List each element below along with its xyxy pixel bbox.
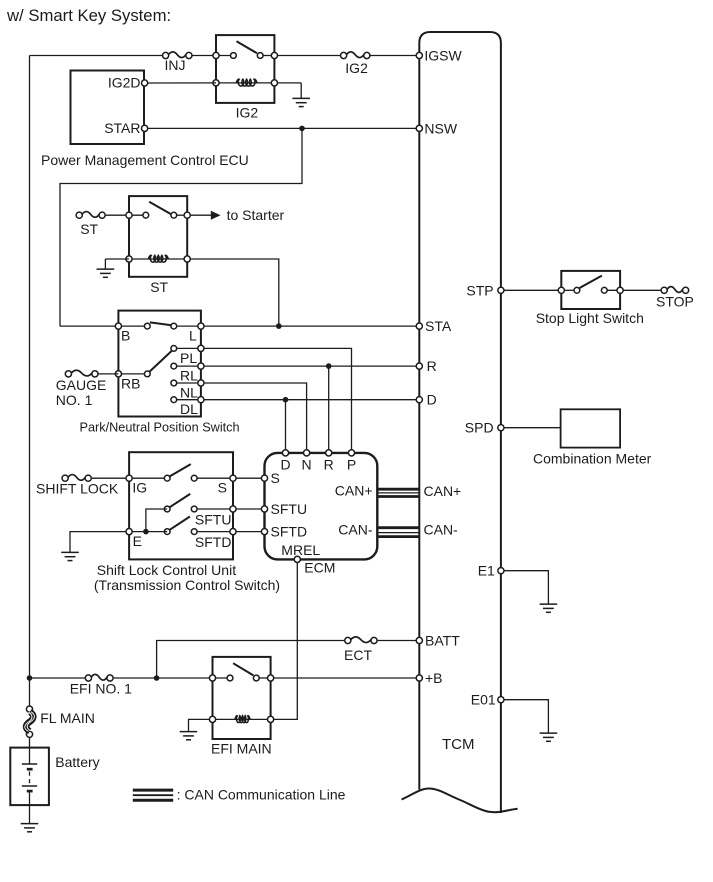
- wire E1 to ground: [504, 571, 549, 604]
- label P (ECM pin): [347, 457, 356, 473]
- label E: [133, 533, 142, 549]
- svg-text:INJ: INJ: [165, 57, 186, 73]
- battery cell plates: [22, 764, 37, 791]
- svg-text:SFTD: SFTD: [195, 534, 232, 550]
- wire relay EFI MAIN coil to ground: [189, 719, 210, 731]
- wire E to ground: [70, 532, 126, 553]
- ground at relay EFI MAIN: [180, 732, 198, 740]
- Shift Lock Control Unit box: [129, 452, 233, 559]
- label S (shift lock): [218, 480, 227, 496]
- wire BATT line: [157, 641, 345, 679]
- svg-text:RB: RB: [121, 375, 140, 391]
- PNP inner contact B: [144, 323, 150, 329]
- svg-text:STP: STP: [466, 282, 493, 298]
- terminal IG2D: [142, 80, 148, 86]
- svg-text:SHIFT LOCK: SHIFT LOCK: [36, 480, 119, 496]
- svg-text:Combination Meter: Combination Meter: [533, 450, 652, 466]
- label SFTU (ECM pin): [271, 501, 308, 517]
- label E01: [471, 692, 496, 708]
- relay IG2 label: [236, 105, 259, 121]
- shift lock switch 1 row wires: [129, 477, 233, 479]
- wire fuse SHIFT LOCK to IG: [91, 477, 129, 479]
- PNP inner contact RL: [171, 363, 177, 369]
- ECM terminal SFTD: [261, 529, 267, 535]
- Stop Light Switch box: [561, 271, 620, 309]
- label NSW: [424, 120, 457, 136]
- wire PL to ECM P: [204, 348, 352, 450]
- svg-text:SFTD: SFTD: [271, 524, 308, 540]
- wire fuse ECT to terminal BATT: [377, 640, 420, 642]
- wire relay EFI MAIN to terminal +B: [274, 677, 420, 679]
- Stop Light Switch blade: [580, 276, 602, 288]
- wire SFTU row to ECM: [236, 508, 265, 510]
- svg-text:IG: IG: [132, 480, 147, 496]
- svg-text:STOP: STOP: [656, 294, 694, 310]
- ground at E01: [540, 733, 558, 741]
- svg-text:Park/Neutral Position Switch: Park/Neutral Position Switch: [80, 420, 240, 434]
- relay IG2 switch contacts: [231, 53, 264, 59]
- relay IG2 switch blade: [237, 41, 258, 53]
- ECM terminal MREL: [294, 556, 300, 562]
- label R: [427, 358, 437, 374]
- wire relay ST coil to STA line: [190, 259, 279, 326]
- ECM box: [265, 453, 378, 560]
- wire relay ST output to starter arrow: [190, 214, 211, 216]
- node junction left bus / +B: [27, 675, 33, 681]
- wire NSW junction down and left to ST branch: [60, 128, 302, 326]
- PNP B-L row wires: [118, 325, 200, 327]
- relay EFI MAIN box: [213, 657, 271, 739]
- shift lock switch 1 blade: [170, 464, 191, 476]
- svg-text:CAN+: CAN+: [424, 483, 462, 499]
- Park/Neutral Position Switch caption: [80, 420, 240, 434]
- terminal E1: [498, 568, 504, 574]
- wire PL contact: [177, 347, 201, 349]
- Transmission Control Switch caption: [94, 577, 280, 593]
- svg-text:NL: NL: [180, 384, 198, 400]
- ground at relay ST: [97, 259, 115, 277]
- svg-text:ECM: ECM: [304, 560, 335, 576]
- label NL: [180, 384, 198, 400]
- terminal IG: [126, 475, 132, 481]
- terminal E01: [498, 697, 504, 703]
- terminal SFTD (shift lock): [230, 529, 236, 535]
- relay IG2 coil: [236, 79, 257, 86]
- node junction at E: [143, 529, 149, 535]
- node junction STAR/NSW branch: [299, 126, 305, 132]
- svg-text:CAN+: CAN+: [335, 483, 373, 499]
- fuse STOP: [661, 287, 689, 294]
- terminal IGSW: [416, 52, 422, 58]
- svg-text:N: N: [302, 457, 312, 473]
- ECM terminal SFTU: [261, 506, 267, 512]
- relay EFI MAIN coil terminals: [209, 716, 273, 722]
- relay ST coil: [148, 255, 168, 262]
- label D (ECM pin): [280, 457, 290, 473]
- label N (ECM pin): [302, 457, 312, 473]
- wire STA line: [204, 325, 419, 327]
- Shift Lock Control Unit caption: [97, 562, 236, 578]
- shift lock switch 2 contacts: [164, 506, 197, 512]
- wire RL contact: [177, 365, 201, 367]
- ground at relay IG2: [292, 83, 310, 107]
- svg-text:DL: DL: [180, 401, 198, 417]
- label CAN+ (ECM pin): [335, 483, 373, 499]
- label SHIFT LOCK: [36, 480, 119, 496]
- wire E row: [129, 531, 167, 533]
- shift lock switch 3 blade: [170, 517, 190, 530]
- ground at battery: [21, 824, 39, 832]
- terminal B: [115, 323, 121, 329]
- svg-text:CAN-: CAN-: [424, 521, 459, 537]
- wire S row to ECM: [236, 477, 265, 479]
- label fuse ST: [80, 221, 98, 237]
- svg-text:IG2D: IG2D: [108, 74, 141, 90]
- wire left bus to FL MAIN: [29, 678, 31, 706]
- terminal NSW: [416, 125, 422, 131]
- label B: [121, 328, 130, 344]
- terminal STA: [416, 323, 422, 329]
- label SFTU (shift lock): [195, 511, 232, 527]
- terminal +B: [416, 675, 422, 681]
- left bus wire (vertical): [29, 56, 31, 679]
- label MREL: [281, 542, 320, 558]
- label D: [427, 392, 437, 408]
- label CAN- (ECM pin): [338, 521, 373, 537]
- terminal SFTU (shift lock): [230, 506, 236, 512]
- svg-text:GAUGE: GAUGE: [56, 377, 107, 393]
- label to Starter: [227, 207, 285, 223]
- svg-text:STA: STA: [425, 318, 452, 334]
- svg-text:to Starter: to Starter: [227, 207, 285, 223]
- svg-text:+B: +B: [425, 670, 443, 686]
- wire SFTD row to ECM: [236, 531, 265, 533]
- label R (ECM pin): [324, 457, 334, 473]
- wire DL to terminal D: [204, 399, 419, 401]
- terminal BATT: [416, 637, 422, 643]
- terminal E: [126, 529, 132, 535]
- ECM caption: [304, 560, 335, 576]
- svg-text:S: S: [218, 480, 227, 496]
- fuse IG2: [341, 52, 370, 59]
- wire D junction down to ECM D: [285, 400, 287, 450]
- label STP: [466, 282, 493, 298]
- label GAUGE: [56, 377, 107, 393]
- svg-text:EFI NO. 1: EFI NO. 1: [70, 681, 132, 697]
- terminal L: [198, 323, 204, 329]
- svg-text:RL: RL: [180, 368, 198, 384]
- relay IG2 coil terminals: [213, 80, 278, 86]
- label IG: [132, 480, 147, 496]
- PNP inner contact DL: [171, 397, 177, 403]
- node junction on D line: [283, 397, 289, 403]
- label EFI NO. 1: [70, 681, 132, 697]
- svg-text:(Transmission Control Switch): (Transmission Control Switch): [94, 577, 280, 593]
- terminal RB: [115, 371, 121, 377]
- wire fuse GAUGE to terminal RB: [98, 373, 119, 375]
- battery box: [10, 748, 49, 806]
- terminal PL: [198, 345, 204, 351]
- shift lock switch 3 row wire: [194, 531, 233, 533]
- PNP inner contact L: [171, 323, 177, 329]
- wire battery to ground: [29, 792, 31, 823]
- svg-text:: CAN Communication Line: : CAN Communication Line: [177, 786, 346, 802]
- svg-text:R: R: [427, 358, 437, 374]
- svg-text:B: B: [121, 328, 130, 344]
- svg-text:IGSW: IGSW: [424, 48, 462, 64]
- label SFTD (ECM pin): [271, 524, 308, 540]
- shift lock switch 1 contacts: [164, 475, 197, 481]
- wire MREL to EFI MAIN relay coil: [274, 562, 298, 719]
- CAN legend caption: [177, 786, 346, 802]
- arrow to Starter: [211, 211, 221, 220]
- svg-text:D: D: [280, 457, 290, 473]
- svg-text:EFI MAIN: EFI MAIN: [211, 741, 272, 757]
- wire relay ST coil to ground: [105, 258, 129, 260]
- svg-text:ST: ST: [80, 221, 98, 237]
- wire fuse ST to relay ST: [105, 214, 129, 216]
- ECM terminal N: [304, 450, 310, 456]
- wire R junction down to ECM R: [328, 366, 330, 450]
- svg-text:ST: ST: [150, 279, 168, 295]
- wire relay IG2 to fuse IG2: [277, 55, 340, 57]
- wire left bus to fuse EFI NO.1: [30, 677, 86, 679]
- relay EFI MAIN label: [211, 741, 272, 757]
- node junction on STA line: [276, 323, 282, 329]
- fuse ST: [76, 212, 105, 219]
- label INJ: [165, 57, 186, 73]
- wire branch to terminal B: [60, 325, 118, 327]
- relay ST switch row wires: [129, 214, 187, 216]
- label CAN+ (TCM pin): [424, 483, 462, 499]
- svg-text:TCM: TCM: [442, 736, 475, 753]
- ECM terminal P: [348, 450, 354, 456]
- label S (ECM pin): [271, 470, 280, 486]
- relay ST coil terminals: [126, 256, 190, 262]
- PNP inner contact NL: [171, 380, 177, 386]
- relay IG2 box: [216, 35, 274, 103]
- TCM label: [442, 736, 475, 753]
- wire FL MAIN to battery: [29, 737, 31, 764]
- fuse SHIFT LOCK: [62, 475, 91, 482]
- relay EFI MAIN coil row wire: [213, 718, 271, 720]
- ground at shift lock E: [61, 552, 79, 560]
- svg-text:PL: PL: [180, 350, 197, 366]
- wire NL to ECM N: [204, 383, 307, 450]
- Combination Meter caption: [533, 450, 652, 466]
- label FL MAIN: [40, 710, 95, 726]
- Stop Light Switch caption: [536, 310, 644, 326]
- svg-text:Battery: Battery: [55, 754, 99, 770]
- label +B: [425, 670, 443, 686]
- relay ST switch terminals: [126, 212, 190, 218]
- Park/Neutral Position Switch box: [118, 311, 200, 417]
- svg-text:E1: E1: [478, 563, 495, 579]
- svg-text:Power Management Control ECU: Power Management Control ECU: [41, 152, 249, 168]
- PNP RB row wire: [118, 373, 147, 375]
- Power Management Control ECU caption: [41, 152, 249, 168]
- svg-text:NSW: NSW: [424, 120, 457, 136]
- TCM module outline (rounded top, wavy break at bottom): [402, 32, 518, 813]
- svg-text:SFTU: SFTU: [271, 501, 308, 517]
- svg-text:w/ Smart Key System:: w/ Smart Key System:: [6, 6, 171, 25]
- svg-text:MREL: MREL: [281, 542, 320, 558]
- label SFTD (shift lock): [195, 534, 232, 550]
- wire NL contact: [177, 382, 201, 384]
- PNP blade B-L: [150, 322, 172, 325]
- svg-text:NO. 1: NO. 1: [56, 392, 93, 408]
- svg-text:FL MAIN: FL MAIN: [40, 710, 95, 726]
- svg-text:CAN-: CAN-: [338, 521, 373, 537]
- relay IG2 coil row wire: [216, 82, 274, 84]
- fuse INJ: [163, 52, 192, 59]
- terminal DL: [198, 397, 204, 403]
- svg-text:S: S: [271, 470, 280, 486]
- svg-text:ECT: ECT: [344, 647, 372, 663]
- svg-text:L: L: [189, 328, 197, 344]
- wire switch 2 to E junction: [146, 509, 167, 532]
- relay EFI MAIN switch row wires: [213, 677, 271, 679]
- svg-text:P: P: [347, 457, 356, 473]
- terminal NL: [198, 380, 204, 386]
- svg-text:Stop Light Switch: Stop Light Switch: [536, 310, 644, 326]
- terminal RL: [198, 363, 204, 369]
- shift lock switch 3 contacts: [164, 529, 197, 535]
- svg-text:SFTU: SFTU: [195, 511, 232, 527]
- wire RL to terminal R: [204, 365, 419, 367]
- wire DL contact: [177, 399, 201, 401]
- CAN+ bus lines: [377, 489, 419, 496]
- svg-text:STAR: STAR: [104, 120, 140, 136]
- ground at E1: [540, 604, 558, 612]
- label STA: [425, 318, 452, 334]
- wire IG2D to relay IG2 coil: [147, 82, 216, 84]
- relay EFI MAIN switch blade: [233, 663, 253, 675]
- label fuse IG2: [345, 60, 368, 76]
- wire fuse IG2 to terminal IGSW: [370, 55, 420, 57]
- Combination Meter box: [561, 409, 621, 447]
- relay ST label: [150, 279, 168, 295]
- Stop Light Switch terminals: [558, 287, 623, 293]
- shift lock switch 2 blade: [170, 494, 191, 507]
- svg-text:Shift Lock Control Unit: Shift Lock Control Unit: [97, 562, 236, 578]
- terminal STP: [498, 287, 504, 293]
- label RB: [121, 375, 140, 391]
- relay ST coil row wire: [129, 258, 187, 260]
- wire STP to Stop Light Switch: [504, 289, 561, 291]
- terminal S (shift lock): [230, 475, 236, 481]
- svg-text:IG2: IG2: [236, 105, 259, 121]
- wire fuse INJ to relay IG2: [192, 55, 216, 57]
- PNP inner contact PL: [171, 346, 177, 352]
- wire Stop Light Switch to fuse STOP: [623, 289, 661, 291]
- svg-text:BATT: BATT: [425, 633, 460, 649]
- wire fuse EFI NO.1 to relay EFI MAIN: [113, 677, 213, 679]
- relay IG2 switch terminals: [213, 52, 278, 58]
- terminal D: [416, 397, 422, 403]
- relay EFI MAIN coil: [235, 716, 250, 723]
- label PL: [180, 350, 197, 366]
- terminal SPD: [498, 425, 504, 431]
- label BATT: [425, 633, 460, 649]
- wire STAR to terminal NSW: [147, 127, 419, 129]
- wire relay IG2 coil to ground: [277, 82, 301, 84]
- label ECT: [344, 647, 372, 663]
- svg-text:R: R: [324, 457, 334, 473]
- PNP inner contact RB: [144, 371, 150, 377]
- terminal R: [416, 363, 422, 369]
- ECM terminal R: [326, 450, 332, 456]
- CAN- bus lines: [377, 528, 419, 537]
- Stop Light Switch contacts: [574, 287, 607, 293]
- label Battery: [55, 754, 99, 770]
- fuse EFI NO. 1: [85, 674, 113, 681]
- label SPD: [465, 420, 494, 436]
- label RL: [180, 368, 198, 384]
- label STOP: [656, 294, 694, 310]
- fusible link FL MAIN: [25, 706, 35, 737]
- Power Management Control ECU box: [71, 71, 145, 145]
- shift lock switch 2 row wire: [194, 508, 233, 510]
- relay EFI MAIN switch terminals: [209, 675, 273, 681]
- svg-text:E01: E01: [471, 692, 496, 708]
- fuse ECT: [345, 637, 377, 644]
- svg-text:E: E: [133, 533, 142, 549]
- svg-text:IG2: IG2: [345, 60, 368, 76]
- label STAR: [104, 120, 140, 136]
- wire from left bus to fuse INJ: [30, 55, 163, 57]
- CAN legend lines: [133, 790, 173, 800]
- PNP blade RB-PL: [150, 351, 172, 372]
- relay IG2 switch row wires: [216, 55, 274, 57]
- label L: [189, 328, 197, 344]
- label NO. 1: [56, 392, 93, 408]
- relay ST switch blade: [149, 202, 171, 214]
- label IGSW: [424, 48, 462, 64]
- wire SPD to Combination Meter: [504, 427, 561, 429]
- node junction BATT branch: [154, 675, 160, 681]
- label E1: [478, 563, 495, 579]
- relay ST box: [129, 196, 187, 277]
- ECM terminal D: [282, 450, 288, 456]
- relay EFI MAIN switch contacts: [227, 675, 259, 681]
- wire E01 to ground: [504, 700, 549, 733]
- relay ST switch contacts: [143, 212, 177, 218]
- node junction on R line: [326, 363, 332, 369]
- svg-text:SPD: SPD: [465, 420, 494, 436]
- label DL: [180, 401, 198, 417]
- ECM terminal S: [261, 475, 267, 481]
- Stop Light Switch row wires: [561, 289, 620, 291]
- label CAN- (TCM pin): [424, 521, 459, 537]
- terminal STAR: [142, 125, 148, 131]
- svg-text:D: D: [427, 392, 437, 408]
- label IG2D: [108, 74, 141, 90]
- fuse GAUGE NO.1: [65, 370, 98, 377]
- title text: [6, 6, 171, 25]
